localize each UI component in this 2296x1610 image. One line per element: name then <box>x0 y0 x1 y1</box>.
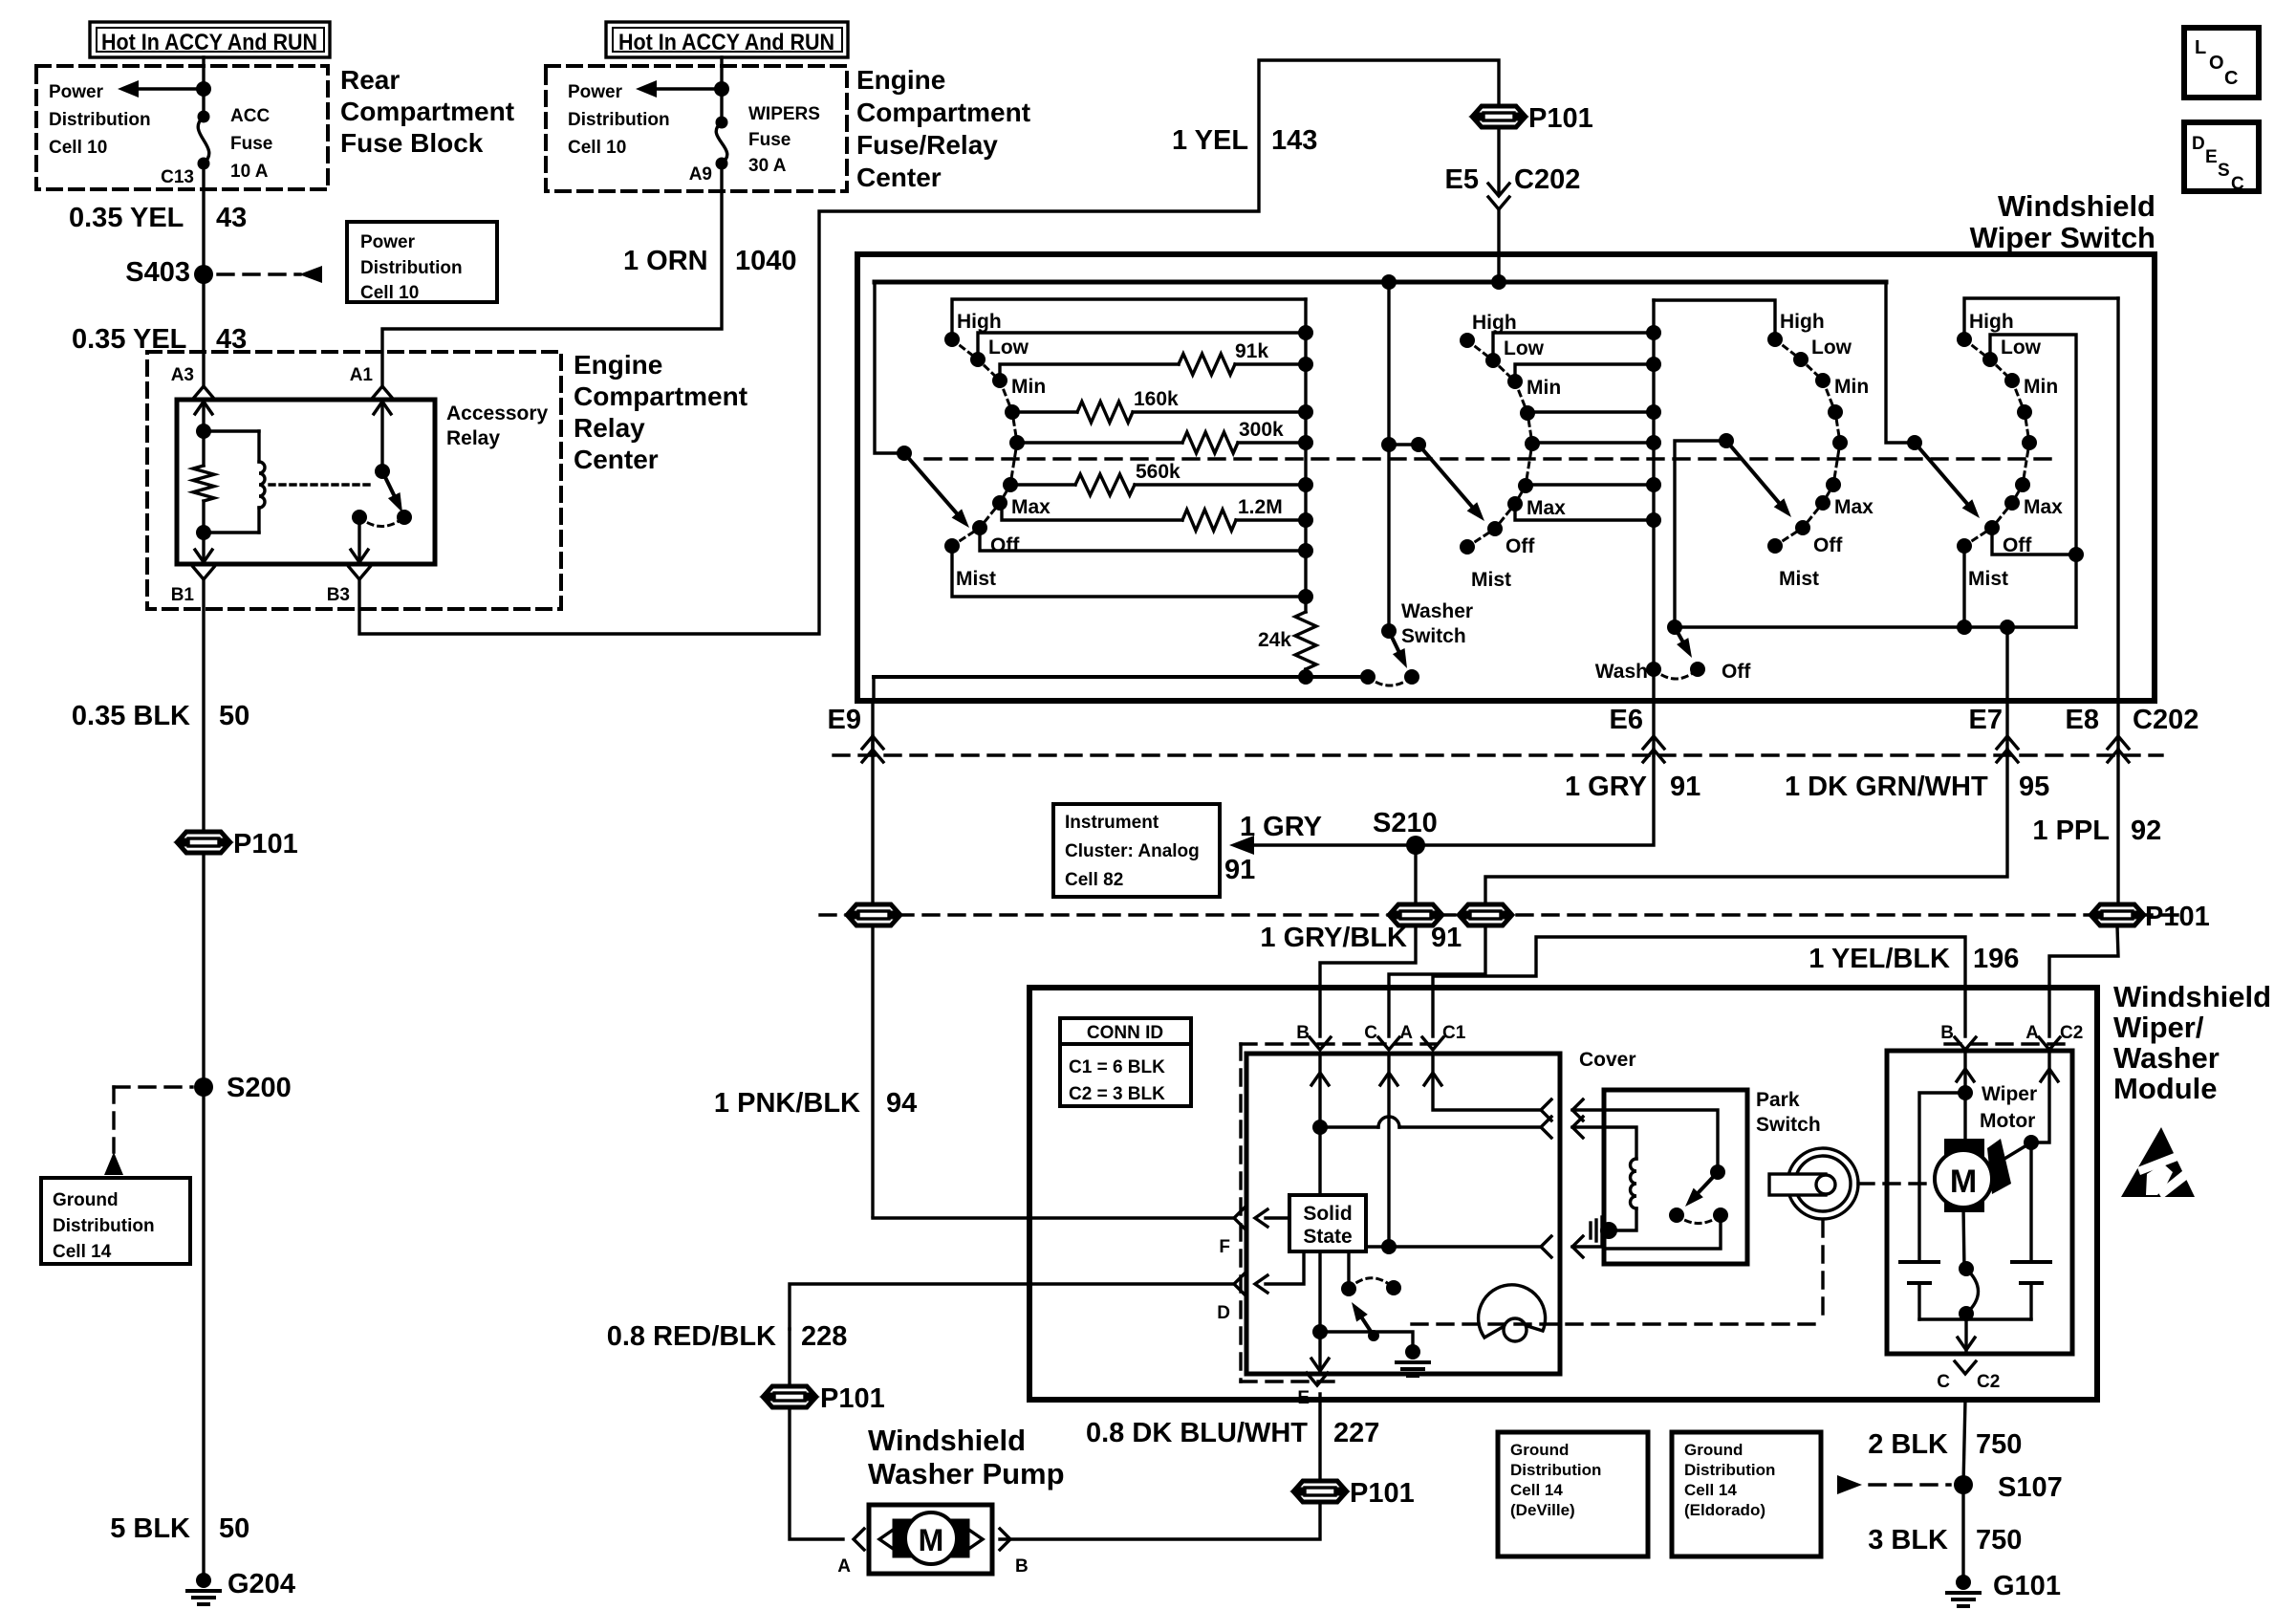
pin C (C1) <box>1364 1023 1399 1050</box>
svg-text:Fuse Block: Fuse Block <box>340 128 484 158</box>
svg-text:C202: C202 <box>1514 164 1580 195</box>
svg-text:Power: Power <box>568 82 623 102</box>
relay dashed actuate link <box>270 483 375 486</box>
label 5 BLK 50 <box>110 1513 249 1544</box>
group3 High rail <box>1654 300 1775 339</box>
motor commutator link <box>2004 1142 2031 1159</box>
svg-text:Low: Low <box>1504 337 1545 359</box>
group1 switch arm <box>904 453 969 528</box>
wire P101 to E5 <box>1497 128 1500 194</box>
group2 bus (E6) <box>1652 300 1655 701</box>
group1 rail resistor 160k <box>1012 388 1306 423</box>
right brush capacitor <box>2012 1262 2050 1319</box>
svg-text:2 BLK: 2 BLK <box>1868 1429 1948 1460</box>
svg-text:Off: Off <box>1722 661 1751 683</box>
svg-text:Wiper: Wiper <box>1982 1083 2037 1105</box>
svg-text:C202: C202 <box>2133 705 2199 735</box>
group4 common dot <box>1907 435 1922 450</box>
wire pin B internal <box>1311 1054 1329 1195</box>
cam / park cam symbol <box>1479 1285 1546 1341</box>
svg-text:Distribution: Distribution <box>53 1216 155 1236</box>
switch group3 contacts (High..Mist) <box>1767 311 1874 590</box>
switch feed bus <box>875 280 1886 285</box>
pin B1 <box>171 567 214 605</box>
svg-text:A: A <box>2025 1023 2039 1043</box>
svg-text:B: B <box>1296 1023 1310 1043</box>
label 0.35 BLK 50 <box>72 701 249 731</box>
wire solid state internal switch feed <box>1347 1251 1350 1289</box>
svg-text:227: 227 <box>1333 1418 1379 1448</box>
svg-text:Cover: Cover <box>1579 1049 1636 1071</box>
svg-text:5 BLK: 5 BLK <box>110 1513 190 1544</box>
wire 1 GRY/BLK 91 to pin B <box>1320 926 1416 1036</box>
dashed reference to Power Distribution Cell 10 <box>218 266 322 283</box>
svg-text:Low: Low <box>1811 337 1852 359</box>
svg-text:S403: S403 <box>125 257 190 288</box>
svg-text:30 A: 30 A <box>748 156 787 176</box>
svg-text:S210: S210 <box>1373 808 1438 838</box>
relay contact dots <box>352 510 412 525</box>
svg-text:Park: Park <box>1756 1089 1800 1111</box>
svg-text:Max: Max <box>1527 497 1566 519</box>
wire arrow 1 GRY 91 to instrument cluster <box>1229 836 1416 855</box>
svg-text:C: C <box>1364 1023 1377 1043</box>
svg-text:1 DK GRN/WHT: 1 DK GRN/WHT <box>1785 772 1988 802</box>
title Engine Compartment Relay Center <box>574 350 747 474</box>
switch group4 contacts (High..Mist) <box>1957 311 2063 590</box>
svg-text:Center: Center <box>856 163 942 192</box>
svg-text:1 GRY/BLK: 1 GRY/BLK <box>1260 923 1407 953</box>
connector P101 on DK GRN/WHT wire <box>1461 904 1510 925</box>
svg-text:Washer: Washer <box>2113 1041 2220 1075</box>
svg-text:Power: Power <box>360 232 416 252</box>
svg-text:1 YEL/BLK: 1 YEL/BLK <box>1809 944 1950 974</box>
connector P101 on PPL wire <box>2092 902 2210 932</box>
svg-text:Fuse: Fuse <box>748 130 791 150</box>
svg-text:94: 94 <box>886 1088 917 1119</box>
relay coil input wire <box>195 400 212 431</box>
dashed ref to S107 <box>1837 1475 1950 1494</box>
group1 Off rail <box>980 528 1306 551</box>
svg-text:High: High <box>957 311 1002 333</box>
svg-text:C: C <box>2231 174 2244 194</box>
ground G101 <box>1947 1571 2061 1606</box>
svg-text:S107: S107 <box>1998 1472 2063 1503</box>
dashed box Rear Compartment Fuse Block <box>36 66 328 189</box>
relay contact dashed arc <box>359 517 404 527</box>
pin E7 <box>1969 701 2018 762</box>
internal switch pivot <box>1368 1330 1379 1341</box>
svg-text:O: O <box>2209 53 2224 74</box>
label box Hot In ACCY And RUN (engine fuse center) <box>606 22 848 57</box>
svg-text:B: B <box>1940 1023 1954 1043</box>
wire pin C internal <box>1380 1054 1397 1247</box>
contact Off (washer) <box>1690 661 1751 683</box>
pin F <box>1029 1207 1267 1257</box>
svg-text:1 ORN: 1 ORN <box>623 246 708 276</box>
svg-text:Cell 14: Cell 14 <box>1510 1481 1563 1499</box>
svg-text:E8: E8 <box>2066 705 2099 735</box>
fuse ACC Fuse 10 A <box>198 111 210 170</box>
module C1 connector dashed face <box>1241 1044 1445 1382</box>
washer feed wire <box>1387 282 1390 631</box>
text Washer Switch <box>1401 600 1473 647</box>
wash off pivot dot <box>1667 620 1682 635</box>
group1 arm feed wire <box>875 282 904 453</box>
label box Hot In ACCY And RUN (rear fuse block) <box>90 22 330 57</box>
svg-text:196: 196 <box>1973 944 2019 974</box>
svg-text:CONN ID: CONN ID <box>1087 1023 1163 1043</box>
pin B3 <box>327 567 370 605</box>
svg-text:A: A <box>1399 1023 1413 1043</box>
relay coil bottom junction <box>196 525 211 540</box>
svg-text:0.35 YEL: 0.35 YEL <box>69 203 184 233</box>
svg-text:B3: B3 <box>327 585 350 605</box>
svg-text:Hot In ACCY And RUN: Hot In ACCY And RUN <box>618 30 834 55</box>
park coil feed from B line <box>1604 1127 1636 1159</box>
group1 High rail <box>952 299 1306 339</box>
motor loop arc <box>1966 1269 1979 1314</box>
svg-text:C2: C2 <box>2060 1023 2083 1043</box>
washer left contact <box>1360 669 1375 685</box>
node branch dot 2 <box>714 81 729 97</box>
label 1 GRY / 91 (cluster) <box>1224 812 1322 885</box>
wire 1 PNK/BLK 94 from E9 <box>871 736 874 1216</box>
svg-text:Off: Off <box>1505 535 1535 557</box>
svg-text:0.35 BLK: 0.35 BLK <box>72 701 190 731</box>
wire 0.35 YEL 43 upper <box>202 163 205 267</box>
text Park Switch <box>1756 1089 1821 1136</box>
wire P101 down <box>788 1329 791 1385</box>
group2 d4 rail <box>1527 410 1654 413</box>
svg-text:A: A <box>837 1556 851 1577</box>
svg-text:43: 43 <box>216 203 247 233</box>
chevrons B line at box edge <box>1541 1117 1604 1138</box>
park coil to ground <box>1609 1208 1636 1230</box>
junction dot C line <box>1381 1239 1397 1254</box>
internal switch contact left <box>1341 1281 1356 1296</box>
wire 0.35 YEL 43 lower <box>202 274 205 386</box>
group4 arm feed wire <box>1886 282 1915 443</box>
dashed box Engine Compartment Relay Center <box>147 352 561 609</box>
svg-text:300k: 300k <box>1239 419 1284 441</box>
label 2 BLK 750 <box>1868 1429 2022 1460</box>
svg-text:C: C <box>2224 68 2238 89</box>
svg-text:A9: A9 <box>689 164 712 185</box>
svg-text:50: 50 <box>219 1513 249 1544</box>
pin E <box>1297 1373 1328 1408</box>
chevrons C line at box edge <box>1541 1236 1604 1257</box>
svg-text:91k: 91k <box>1235 340 1268 362</box>
park switch pivot <box>1710 1164 1725 1180</box>
svg-text:High: High <box>1472 312 1517 334</box>
text Cover <box>1579 1049 1636 1071</box>
wire C junction line <box>1366 1245 1541 1248</box>
svg-text:L: L <box>2195 37 2206 58</box>
svg-text:1040: 1040 <box>735 246 797 276</box>
wire from Hot box into fuse block <box>202 57 205 117</box>
pin A9 label <box>689 164 712 185</box>
title Rear Compartment Fuse Block <box>340 65 514 158</box>
wire E7 drop <box>2000 620 2015 701</box>
wire 3 BLK 750 <box>1961 1485 1964 1575</box>
pin A1 <box>350 365 393 399</box>
svg-text:G101: G101 <box>1993 1571 2061 1601</box>
junction dot B lower <box>1312 1324 1328 1339</box>
group4 Off rail <box>1992 528 2076 555</box>
wire F to E9 riser <box>873 1216 1029 1219</box>
connector P101 on 1 YEL <box>1474 103 1593 134</box>
svg-text:Cell 10: Cell 10 <box>49 138 107 158</box>
label 3 BLK 750 <box>1868 1525 2022 1556</box>
box module logic (solid) <box>1246 1054 1560 1374</box>
svg-text:E5: E5 <box>1445 164 1479 195</box>
svg-text:10 A: 10 A <box>230 162 269 182</box>
wire 1 YEL/BLK 196 pin A(C1) to motor B <box>1433 937 1965 1036</box>
wire solid state to F pin <box>1266 1216 1289 1219</box>
wire B branch to cover <box>1320 1117 1541 1127</box>
group4 Mist junction <box>1957 620 1972 635</box>
wire 0.35 BLK 50 <box>202 579 205 831</box>
svg-text:Mist: Mist <box>1471 569 1511 591</box>
svg-text:C1 = 6 BLK: C1 = 6 BLK <box>1069 1057 1165 1077</box>
label 1 PNK/BLK 94 <box>714 1088 917 1119</box>
group4 Off rail junction <box>2069 547 2084 562</box>
connector E5 C202 <box>1445 164 1581 209</box>
svg-text:91: 91 <box>1224 855 1255 885</box>
group1 Min rail with resistor 91k <box>1000 340 1306 381</box>
svg-text:Switch: Switch <box>1401 625 1466 647</box>
park contact right <box>1713 1207 1728 1223</box>
wire 2 BLK 750 <box>1963 1400 1965 1485</box>
box Ground Distribution Cell 14 (left) <box>41 1178 190 1264</box>
dashed mechanical link (cam to park switch) <box>1412 1221 1823 1324</box>
svg-text:228: 228 <box>801 1321 847 1352</box>
group2 d6 rail <box>1526 483 1654 486</box>
group4 switch arm <box>1915 443 1980 518</box>
pin A (C2) <box>2025 1023 2083 1050</box>
connector P101 on E9 wire <box>849 904 899 925</box>
text Power Distribution Cell 10 (rear) <box>49 82 151 158</box>
svg-text:143: 143 <box>1271 125 1317 156</box>
wire RED/BLK to pump A <box>790 1408 843 1539</box>
box Windshield Wiper Switch <box>857 254 2155 701</box>
pin D <box>1029 1273 1267 1323</box>
svg-text:Off: Off <box>1813 534 1843 556</box>
wire 1 PPL 92 from E8 <box>2116 750 2119 903</box>
group2 Max rail <box>1515 504 1654 520</box>
title Engine Compartment Fuse/Relay Center <box>856 65 1030 192</box>
washer arm pivot <box>1381 623 1397 639</box>
svg-text:Windshield: Windshield <box>868 1424 1026 1457</box>
ground G204 <box>187 1569 295 1604</box>
group2 switch arm <box>1419 445 1484 521</box>
connector P101 on RED/BLK <box>765 1383 885 1414</box>
box CONN ID <box>1060 1018 1191 1106</box>
svg-text:Instrument: Instrument <box>1065 813 1159 833</box>
svg-text:3 BLK: 3 BLK <box>1868 1525 1948 1556</box>
svg-text:P101: P101 <box>1350 1478 1415 1509</box>
wire motor B internal <box>1957 1051 1974 1157</box>
dashed link park to motor <box>1858 1182 1957 1185</box>
internal switch contact right <box>1386 1280 1401 1295</box>
pin E8 <box>2066 701 2129 762</box>
group1 rail resistor 300k <box>1017 419 1306 453</box>
park contact left <box>1669 1207 1684 1223</box>
relay switch common <box>375 464 390 479</box>
connector row P101 dashed <box>820 913 2187 916</box>
svg-text:Mist: Mist <box>1779 568 1819 590</box>
label 1 ORN 1040 <box>623 246 797 276</box>
label 0.8 DK BLU/WHT 227 <box>1086 1418 1379 1448</box>
svg-text:Distribution: Distribution <box>568 110 670 130</box>
park contact dashed arc <box>1677 1215 1721 1224</box>
svg-text:D: D <box>2192 134 2205 154</box>
svg-text:Rear: Rear <box>340 65 400 95</box>
dashed ref to ground distribution <box>104 1087 192 1175</box>
svg-text:0.8 DK BLU/WHT: 0.8 DK BLU/WHT <box>1086 1418 1308 1448</box>
motor C2 connector face dashed <box>1945 1042 2069 1045</box>
svg-text:Solid: Solid <box>1303 1203 1352 1225</box>
group1 rail resistor 560k <box>1010 461 1306 495</box>
svg-text:M: M <box>1950 1164 1977 1200</box>
text Power Distribution Cell 10 (engine) <box>568 82 670 158</box>
group4 High rail (E8) <box>1964 298 2118 339</box>
wire P101 to S200 <box>202 854 205 1087</box>
svg-text:High: High <box>1969 311 2014 333</box>
label 1 PPL 92 <box>2032 816 2161 846</box>
svg-text:Windshield: Windshield <box>2113 980 2271 1013</box>
svg-text:Min: Min <box>1527 377 1561 399</box>
svg-text:160k: 160k <box>1134 388 1179 410</box>
box Windshield Washer Pump <box>869 1505 992 1574</box>
svg-text:Cell 10: Cell 10 <box>360 283 419 303</box>
motor bottom bus <box>1919 1317 2031 1320</box>
washer off arm <box>1675 627 1692 658</box>
wire motor A internal <box>2031 1051 2058 1142</box>
svg-text:S200: S200 <box>227 1073 292 1103</box>
park switch arm <box>1685 1172 1718 1207</box>
splice S210 <box>1373 808 1438 855</box>
wire E to P101 <box>1318 1394 1321 1480</box>
svg-text:Distribution: Distribution <box>1684 1461 1775 1479</box>
text WIPERS Fuse 30 A <box>748 104 820 176</box>
box Instrument Cluster: Analog Cell 82 <box>1053 804 1220 897</box>
pin C (C2) bottom <box>1937 1361 2000 1392</box>
wire solid state to D pin <box>1266 1251 1304 1284</box>
svg-text:ACC: ACC <box>230 106 270 126</box>
connector P101 on DK BLU/WHT <box>1295 1478 1415 1509</box>
svg-text:High: High <box>1780 311 1825 333</box>
splice S200 <box>194 1073 292 1103</box>
group2 Low rail <box>1493 333 1654 360</box>
internal contact dashed arc <box>1349 1278 1394 1289</box>
svg-text:(Eldorado): (Eldorado) <box>1684 1501 1765 1519</box>
internal switch arm <box>1352 1302 1374 1336</box>
washer switch arm <box>1389 631 1407 668</box>
svg-text:1 YEL: 1 YEL <box>1172 125 1248 156</box>
svg-text:Engine: Engine <box>574 350 662 380</box>
wire from Hot box 2 into fuse center <box>720 57 723 122</box>
svg-text:Switch: Switch <box>1756 1114 1821 1136</box>
svg-text:Accessory: Accessory <box>446 402 549 424</box>
svg-text:Ground: Ground <box>1684 1441 1743 1459</box>
svg-text:Module: Module <box>2113 1072 2218 1105</box>
pump motor symbol <box>879 1512 983 1564</box>
svg-text:A1: A1 <box>350 365 374 385</box>
label 0.8 RED/BLK 228 <box>607 1321 848 1352</box>
wire 1 GRY 91 from E6 <box>1416 750 1654 845</box>
park relay wire from A line <box>1604 1110 1718 1172</box>
pump pin B <box>1000 1529 1029 1577</box>
splice S107 <box>1954 1472 2063 1503</box>
svg-text:(DeVille): (DeVille) <box>1510 1501 1575 1519</box>
box Accessory Relay <box>177 400 435 564</box>
group1 bus <box>1304 299 1307 612</box>
relay output wire B3 inside <box>351 517 368 564</box>
group2 Min rail <box>1515 364 1654 381</box>
svg-text:91: 91 <box>1670 772 1700 802</box>
wire E8 drop <box>2116 298 2119 701</box>
svg-text:G204: G204 <box>227 1569 295 1599</box>
group1 bus junction dots <box>1298 325 1313 604</box>
svg-text:Cluster: Analog: Cluster: Analog <box>1065 841 1200 861</box>
svg-text:Max: Max <box>1834 496 1874 518</box>
svg-text:Washer Pump: Washer Pump <box>868 1457 1065 1490</box>
pin A3 <box>171 365 214 399</box>
box Ground Distribution Cell 14 (Eldorado) <box>1672 1432 1821 1556</box>
group2 arm feed wire <box>1389 443 1419 446</box>
svg-text:C13: C13 <box>161 167 194 187</box>
svg-text:B: B <box>1015 1556 1029 1577</box>
svg-text:State: State <box>1303 1226 1352 1248</box>
wire 1 PPL to pin A (C2) <box>2049 926 2118 1036</box>
pin E6 <box>1610 701 1664 762</box>
wire S210 down to P101 <box>1414 845 1417 903</box>
title Windshield Wiper Switch <box>1970 189 2155 254</box>
module internal ground <box>1397 1344 1429 1376</box>
wire pin E internal <box>1311 1332 1329 1374</box>
relay coil top junction <box>196 424 211 439</box>
svg-text:M: M <box>919 1523 944 1557</box>
box Windshield Wiper/Washer Module <box>1029 988 2097 1400</box>
wire motor armature down <box>1963 1207 1964 1269</box>
group4 Low rail <box>1990 335 2076 627</box>
switch group1 contacts (High..Mist) <box>944 311 1051 590</box>
svg-text:Fuse/Relay: Fuse/Relay <box>856 130 998 160</box>
svg-text:Mist: Mist <box>1968 568 2008 590</box>
svg-text:F: F <box>1219 1237 1230 1257</box>
svg-text:Cell 82: Cell 82 <box>1065 870 1123 890</box>
svg-text:750: 750 <box>1976 1525 2022 1556</box>
switch group2 contacts (High..Mist) <box>1460 312 1566 591</box>
label 1 GRY 91 (E6) <box>1565 772 1700 802</box>
dashed box Engine Compartment Fuse/Relay Center <box>546 66 847 191</box>
group3 arm feed wire <box>1675 441 1726 627</box>
svg-text:1.2M: 1.2M <box>1238 496 1283 518</box>
pump pin A <box>837 1529 864 1577</box>
svg-text:Low: Low <box>2001 337 2042 359</box>
park NC wire to module <box>1604 1215 1721 1249</box>
svg-text:Center: Center <box>574 445 659 474</box>
svg-text:Cell 10: Cell 10 <box>568 138 626 158</box>
svg-text:1 PNK/BLK: 1 PNK/BLK <box>714 1088 860 1119</box>
label 0.35 YEL 43 upper <box>69 203 247 233</box>
label 1 YEL 143 <box>1172 125 1317 156</box>
pin B (C1) <box>1296 1023 1331 1050</box>
svg-text:P101: P101 <box>233 829 298 859</box>
bus junction E5 <box>1491 274 1506 290</box>
